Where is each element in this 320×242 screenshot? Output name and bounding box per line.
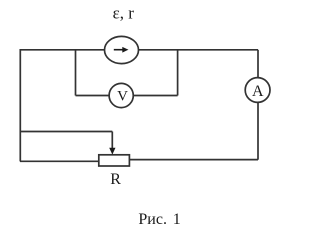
svg-text:Рис.: Рис. [138,211,167,228]
wire: voltmeter branch right vertical [177,50,179,96]
wire: right vertical above ammeter [257,50,259,78]
wire: right vertical below ammeter [257,102,259,160]
ammeter A circle [245,78,270,103]
wire: wiper vertical drop [111,132,113,149]
wire: bottom-right horizontal [129,159,258,161]
svg-text:ε, r: ε, r [113,4,135,23]
wire: wiper horizontal from left rail [20,131,112,133]
wire: top-left horizontal segment [20,49,105,51]
wire: left vertical [19,49,21,161]
wire: top-right horizontal segment [138,49,258,51]
wire: voltmeter branch left horizontal [76,95,110,97]
svg-text:1: 1 [173,211,181,228]
rheostat R body [99,155,130,166]
EMF source arrow [114,47,129,53]
wire: voltmeter branch left vertical [75,50,77,96]
voltmeter V circle [109,83,133,107]
rheostat wiper arrowhead [109,148,115,155]
svg-text:R: R [110,171,121,188]
svg-text:V: V [117,89,128,105]
svg-text:A: A [252,83,264,100]
wire: bottom-left horizontal [20,160,99,162]
wire: voltmeter branch right horizontal [133,95,177,97]
EMF source U1 (ε, r) ellipse [105,36,139,63]
